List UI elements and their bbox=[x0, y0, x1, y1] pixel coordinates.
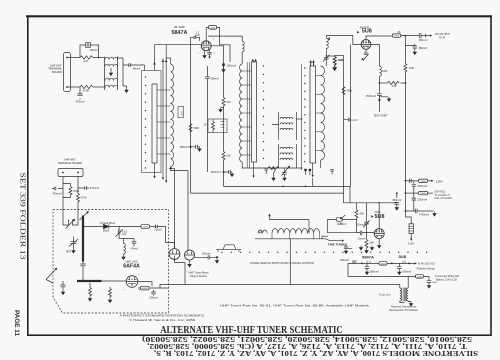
transformer T2 bbox=[279, 112, 297, 140]
test point bbox=[378, 97, 380, 112]
svg-text:1: 1 bbox=[124, 290, 125, 292]
svg-text:39mmf: 39mmf bbox=[133, 67, 141, 70]
svg-text:Battery, C24 & C28: Battery, C24 & C28 bbox=[436, 278, 457, 281]
chassis filament lead bbox=[185, 284, 400, 286]
wafer S1C bbox=[310, 66, 316, 163]
grid cap 2.2mmf bbox=[191, 37, 200, 41]
grid wire from switch bbox=[326, 36, 361, 45]
bypass 4700mmf with ground bbox=[405, 210, 407, 212]
coupling cap 39mmf to switch bbox=[118, 58, 124, 86]
wiper arrow S1A bbox=[154, 45, 156, 71]
resistor 470K with ground bbox=[334, 56, 336, 57]
cathode AGC arrow bbox=[364, 49, 368, 54]
UHF tuner dashed enclosure bbox=[53, 210, 169, 314]
capacitor 470mmf right leg bbox=[78, 186, 89, 189]
wire bottom terminal bbox=[67, 86, 80, 88]
svg-text:470K: 470K bbox=[81, 195, 87, 199]
AGC row bbox=[404, 181, 406, 211]
svg-text:FINE TUNING: FINE TUNING bbox=[328, 242, 348, 246]
resistor 120K with ground bbox=[326, 55, 335, 57]
svg-text:200mmf: 200mmf bbox=[227, 64, 237, 68]
svg-text:56K: 56K bbox=[360, 213, 365, 216]
capacitor .68mmf bypass loop bbox=[80, 45, 99, 58]
filament string wire bbox=[348, 262, 414, 265]
variable resistor 100K (osc adj) bbox=[327, 219, 356, 221]
svg-text:2200mmf: 2200mmf bbox=[417, 185, 427, 188]
fine tuning arrow bbox=[322, 236, 342, 240]
svg-text:4: 4 bbox=[214, 53, 215, 55]
svg-text:15K: 15K bbox=[369, 241, 374, 244]
svg-text:NPO: NPO bbox=[66, 252, 71, 254]
svg-text:280mmf: 280mmf bbox=[149, 298, 158, 300]
bypass 680mmf with ground bbox=[396, 193, 398, 198]
input wire from T1 bbox=[144, 65, 146, 71]
series cap at line bottom bbox=[82, 262, 84, 264]
wiper arrows S1B bbox=[252, 59, 255, 62]
transformer T1 windings bbox=[104, 57, 106, 91]
label: VHF ANT TERMINAL BOARD bbox=[58, 158, 82, 166]
plate resistor 1000 bbox=[138, 282, 152, 289]
ground leg of T1 secondary bbox=[123, 86, 127, 88]
svg-text:VHF ANT.: VHF ANT. bbox=[64, 158, 76, 162]
tuning coil L-A bbox=[171, 64, 174, 167]
resistor 1.8K to B+ bbox=[379, 82, 387, 84]
svg-text:180mmf: 180mmf bbox=[419, 39, 428, 42]
idler coil with ground bbox=[124, 239, 126, 255]
fine tuning shaft bracket bbox=[216, 245, 241, 252]
output coupling cap 680mmf bbox=[419, 33, 429, 38]
long wires down to socket bbox=[171, 167, 189, 250]
line bypass with ground bbox=[427, 276, 431, 283]
tuning coil L-C bbox=[321, 66, 325, 160]
svg-text:470K: 470K bbox=[409, 67, 415, 70]
trimmer 3-5mmf fine tuning bbox=[364, 203, 369, 224]
ground center tap of T1 bbox=[110, 68, 112, 71]
coil taps S1C bbox=[316, 75, 321, 150]
svg-text:PAGE 11: PAGE 11 bbox=[13, 310, 19, 337]
resistor 470K mid leg bbox=[69, 187, 72, 195]
svg-text:[4,5]: [4,5] bbox=[402, 261, 407, 263]
svg-text:180mmf: 180mmf bbox=[202, 253, 211, 255]
coil taps bbox=[157, 90, 171, 154]
svg-text:Plug & Socket: Plug & Socket bbox=[190, 274, 207, 278]
dropping resistor 1000 (filament) bbox=[379, 262, 387, 265]
tuning arrow bbox=[46, 270, 56, 280]
svg-text:47mmf: 47mmf bbox=[130, 249, 137, 251]
svg-text:1K: 1K bbox=[397, 30, 400, 34]
bypass 2200mmf upper bbox=[412, 181, 416, 193]
switch frame S1A bbox=[142, 71, 162, 173]
resistor 47K bbox=[80, 56, 93, 59]
svg-text:1000: 1000 bbox=[394, 36, 400, 38]
resistor 56K bbox=[356, 203, 358, 210]
cap 47mmf bbox=[132, 241, 137, 246]
UHF oscillator tube 6AF4A bbox=[126, 276, 138, 288]
svg-text:2K: 2K bbox=[204, 123, 207, 126]
svg-text:RF AMP: RF AMP bbox=[174, 25, 185, 29]
resistor 470K bbox=[80, 85, 93, 88]
VHF antenna terminal board bbox=[58, 169, 83, 177]
svg-text:1000: 1000 bbox=[142, 288, 148, 290]
svg-text:470K: 470K bbox=[83, 88, 90, 92]
plug pin F2 bbox=[185, 250, 195, 260]
svg-text:5U8: 5U8 bbox=[399, 254, 407, 259]
svg-text:5847A: 5847A bbox=[362, 254, 374, 259]
svg-text:1000: 1000 bbox=[421, 181, 427, 183]
svg-text:SILVERTONE MODELS 7100, A, AY,: SILVERTONE MODELS 7100, A, AY, AZ, Y, Z,… bbox=[154, 349, 478, 356]
svg-text:1N82: 1N82 bbox=[103, 228, 110, 232]
plate load 1000 (box) bbox=[206, 27, 208, 40]
bypass 380mmf with ground bbox=[404, 36, 406, 181]
cap 280mmf bbox=[151, 290, 156, 296]
svg-text:1: 1 bbox=[198, 53, 199, 55]
svg-text:To Pin 2/10 V16: To Pin 2/10 V16 bbox=[418, 262, 436, 265]
temp-comp box with 2K resistor bbox=[208, 119, 227, 133]
svg-text:ALTERNATE VHF-UHF TUNER SCHEMA: ALTERNATE VHF-UHF TUNER SCHEMATIC bbox=[160, 325, 343, 336]
filament transformer bbox=[399, 285, 401, 289]
ground cluster left of filament bbox=[344, 245, 352, 249]
svg-text:© Howard W. Sams & Co., Inc. 1: © Howard W. Sams & Co., Inc. 1956 bbox=[129, 318, 196, 322]
svg-text:680mmf: 680mmf bbox=[180, 146, 189, 149]
svg-text:47K: 47K bbox=[84, 59, 89, 63]
label: UHF OSC 6AF4A bbox=[123, 260, 140, 270]
svg-text:Filament Transformer: Filament Transformer bbox=[391, 304, 416, 308]
terminal caps above wire A bbox=[264, 168, 268, 174]
contact dots S1B bbox=[263, 65, 264, 159]
filament return wire bbox=[348, 263, 429, 276]
upside-down model list (facing-page caption) bbox=[142, 335, 478, 356]
grid resistor + ground bbox=[109, 289, 112, 297]
svg-text:To (L) Line: To (L) Line bbox=[379, 294, 391, 297]
heater bypass 180mmf (left) bbox=[365, 263, 369, 270]
choke 4mh with ground bbox=[223, 66, 225, 98]
svg-text:1.0mf: 1.0mf bbox=[351, 119, 357, 122]
filament return wire to chassis bbox=[175, 259, 186, 284]
svg-text:5847A: 5847A bbox=[172, 30, 188, 36]
svg-text:mmf: mmf bbox=[122, 234, 127, 236]
long link wires from socket bbox=[224, 186, 351, 202]
svg-text:22mmf: 22mmf bbox=[154, 230, 161, 232]
svg-text:1000: 1000 bbox=[143, 227, 149, 229]
plug pin F1 bbox=[169, 249, 180, 260]
feed row 135V bbox=[405, 180, 407, 182]
svg-text:RF OUTPUT: RF OUTPUT bbox=[435, 32, 450, 36]
oscillator tuned line (thick) bbox=[77, 280, 102, 282]
link from oscillator section bbox=[289, 239, 291, 285]
trimmer 3-12mmf bbox=[323, 55, 330, 62]
cathode ground bbox=[204, 51, 206, 54]
svg-text:T, 7110, A, 7111, A, 7112, A,: T, 7110, A, 7111, A, 7112, A, 7113, A, 7… bbox=[147, 342, 467, 349]
cathode ground bbox=[378, 239, 380, 244]
svg-text:680mmf: 680mmf bbox=[392, 199, 401, 202]
svg-text:528.50010, 528.50012, 528.5001: 528.50010, 528.50012, 528.50014, 528.500… bbox=[142, 335, 472, 342]
socket contact row bbox=[221, 252, 427, 253]
svg-text:BOARD: BOARD bbox=[52, 70, 62, 74]
grid cap 10mmf bbox=[357, 231, 375, 235]
triode plate lead down bbox=[371, 44, 380, 66]
mixer tube V2 5U8 (pentode section) bbox=[361, 40, 371, 50]
svg-text:470mmf: 470mmf bbox=[75, 100, 84, 104]
svg-text:7: 7 bbox=[139, 274, 140, 276]
svg-text:1000: 1000 bbox=[421, 193, 427, 195]
links to fine tuning network bbox=[326, 220, 328, 233]
wiper lead down bbox=[253, 162, 255, 176]
bypass cap at cathode bbox=[207, 50, 211, 56]
svg-text:.05mmf: .05mmf bbox=[89, 48, 98, 52]
svg-text:Mounted On TV Chassis: Mounted On TV Chassis bbox=[389, 308, 418, 312]
plate lead up bbox=[378, 203, 380, 229]
choke 1000 on mixer feed bbox=[379, 66, 381, 76]
grid feed to RF amp bbox=[155, 44, 202, 46]
svg-text:6AF4A: 6AF4A bbox=[123, 264, 140, 270]
wire top terminal bbox=[67, 57, 80, 59]
svg-text:5: 5 bbox=[213, 39, 214, 41]
label: RF OUTPUT TO IF bbox=[435, 32, 450, 39]
label: OSC 5U8 bbox=[374, 210, 384, 220]
AGC bus wire bbox=[343, 56, 345, 194]
slug box 1000 bbox=[178, 107, 184, 118]
svg-text:1-2.5: 1-2.5 bbox=[122, 231, 128, 233]
svg-text:380mmf: 380mmf bbox=[419, 47, 428, 50]
svg-text:100K: 100K bbox=[337, 222, 343, 225]
heater labels bbox=[362, 254, 407, 263]
svg-text:A PHOTOFACT STANDARD NOTATI: A PHOTOFACT STANDARD NOTATION SCHEMATIC bbox=[120, 314, 205, 318]
svg-text:470mmf: 470mmf bbox=[90, 186, 99, 190]
svg-text:560K: 560K bbox=[194, 127, 200, 130]
cap 1.0mf bbox=[344, 118, 350, 122]
bypass 2200mmf lower bbox=[412, 193, 416, 211]
label: RF AMP 5847A bbox=[172, 25, 188, 36]
svg-text:180mmf: 180mmf bbox=[340, 259, 349, 262]
svg-text:1000: 1000 bbox=[381, 263, 387, 265]
tuned line (thick) bbox=[82, 216, 84, 262]
svg-text:1000: 1000 bbox=[432, 282, 438, 284]
svg-text:470mmf: 470mmf bbox=[52, 192, 61, 196]
tap bus bbox=[255, 238, 322, 240]
heater bypass 180mmf (right) bbox=[397, 263, 401, 270]
svg-text:1000: 1000 bbox=[210, 27, 216, 29]
svg-text:180mmf: 180mmf bbox=[402, 271, 411, 274]
feed resistor + ground bbox=[89, 288, 92, 296]
AGC divider with ground bbox=[268, 167, 279, 170]
svg-text:mmf: mmf bbox=[195, 34, 200, 37]
svg-text:1000: 1000 bbox=[417, 276, 423, 278]
cap 22mmf bbox=[156, 225, 158, 228]
svg-text:3-5mmf: 3-5mmf bbox=[356, 224, 365, 227]
svg-text:18mmf: 18mmf bbox=[211, 77, 219, 81]
small bump + terminal left of coil bbox=[258, 230, 267, 234]
svg-text:C36, L23 & R29: C36, L23 & R29 bbox=[435, 197, 453, 200]
cap + ground under line bbox=[60, 281, 65, 290]
svg-text:UHF Tuner Part No. 95-91. VHF: UHF Tuner Part No. 95-91. VHF Tuner Part… bbox=[220, 305, 371, 308]
oscillator coil L-osc bbox=[272, 229, 320, 234]
contact dots S1A bbox=[145, 76, 146, 168]
svg-text:4mh: 4mh bbox=[226, 101, 231, 104]
wafer S1A bbox=[152, 84, 157, 163]
svg-text:TO IF: TO IF bbox=[439, 36, 446, 40]
coil bottom return bbox=[320, 160, 322, 168]
crystal mixer 1N82 bbox=[100, 221, 116, 232]
label: MIXER 5U8 bbox=[360, 25, 372, 34]
svg-text:110V: 110V bbox=[408, 241, 415, 245]
svg-text:1500mmf: 1500mmf bbox=[366, 95, 376, 98]
svg-text:1000: 1000 bbox=[382, 70, 388, 73]
svg-text:TEST POINT: TEST POINT bbox=[373, 115, 388, 118]
series resistor 1000 (return) bbox=[416, 275, 424, 278]
filter choke to 110V bbox=[405, 211, 411, 224]
label: UHF ANT TERMINAL BOARD bbox=[48, 64, 62, 74]
coil taps S1B bbox=[242, 71, 251, 155]
transformer T3 bbox=[279, 144, 297, 162]
label: UHF tuner bezel plug & socket bbox=[188, 271, 209, 278]
tuning coil L-B bbox=[240, 64, 243, 162]
svg-text:Crystal Mixer: Crystal Mixer bbox=[100, 221, 116, 225]
svg-text:135V: 135V bbox=[436, 179, 443, 183]
choke 1000 vertical bbox=[242, 41, 244, 52]
trimmer cap NPO bbox=[71, 237, 77, 249]
svg-text:180mmf: 180mmf bbox=[370, 271, 379, 274]
svg-text:SET 339 FOLDER 13: SET 339 FOLDER 13 bbox=[19, 173, 28, 260]
cap 1500mmf with ground bbox=[377, 83, 382, 96]
trimmer 1-2.5mmf bbox=[118, 227, 120, 234]
svg-text:4700mmf: 4700mmf bbox=[419, 213, 429, 216]
resistor 15K bbox=[222, 152, 225, 160]
svg-text:CHANNEL SELECTOR SWITCH SHOWN: CHANNEL SELECTOR SWITCH SHOWN IN CHANNEL… bbox=[250, 261, 314, 265]
resistor 680K bbox=[342, 87, 345, 95]
stator rail bbox=[301, 64, 303, 170]
resistor 470K in B+ feed bbox=[404, 64, 407, 72]
RF amp tube V1 5847A bbox=[201, 41, 211, 51]
capacitor 470mmf left leg bbox=[52, 187, 63, 190]
svg-text:1.8K: 1.8K bbox=[391, 85, 396, 88]
wiper arrows S1C bbox=[311, 62, 314, 66]
svg-text:470K: 470K bbox=[338, 59, 344, 62]
svg-text:470K: 470K bbox=[73, 189, 79, 193]
svg-text:1500mmf: 1500mmf bbox=[211, 171, 221, 174]
capacitor 470mmf bbox=[79, 87, 81, 100]
svg-text:TERMINAL BOARD: TERMINAL BOARD bbox=[58, 161, 82, 165]
svg-text:3: 3 bbox=[139, 290, 140, 292]
resistor 560K bbox=[189, 124, 192, 132]
plate load resistor 1K (box) bbox=[392, 34, 400, 37]
svg-text:2200mmf: 2200mmf bbox=[417, 199, 427, 202]
svg-text:5U8: 5U8 bbox=[362, 29, 372, 35]
svg-text:[4,5]: [4,5] bbox=[366, 261, 371, 263]
plate to output bbox=[366, 36, 392, 40]
oscillator link wire with wiper arrow bbox=[270, 216, 310, 233]
contact dots S1C bbox=[304, 67, 305, 162]
svg-text:(Filament String): (Filament String) bbox=[417, 268, 435, 271]
svg-text:15K: 15K bbox=[226, 155, 231, 158]
svg-text:1000: 1000 bbox=[180, 111, 182, 117]
stator rails bbox=[247, 62, 249, 168]
wire down from terminals bbox=[63, 177, 78, 194]
cap 680mmf with ground bbox=[189, 146, 191, 148]
UHF antenna terminal board bbox=[64, 53, 71, 92]
cap 1500mmf with ground bbox=[223, 171, 225, 173]
resistor 470K right leg bbox=[77, 194, 80, 202]
stator wires bbox=[163, 45, 166, 181]
oscillator tube V3 5U8 (triode section) bbox=[374, 229, 384, 239]
antenna input loop bbox=[63, 210, 78, 218]
interstage wire to converter coil bbox=[208, 36, 242, 41]
wire bbox=[93, 57, 105, 59]
svg-text:680K: 680K bbox=[347, 89, 353, 92]
grid choke 1000 bbox=[325, 36, 327, 39]
wafer S1B bbox=[252, 62, 257, 162]
screen cap 200mmf bbox=[211, 46, 224, 64]
grid resistor 15K with ground bbox=[365, 240, 368, 248]
cap 18mmf bbox=[205, 66, 210, 90]
svg-text:10mmf: 10mmf bbox=[358, 237, 366, 240]
resistor 1000 (box style) bbox=[141, 225, 150, 229]
